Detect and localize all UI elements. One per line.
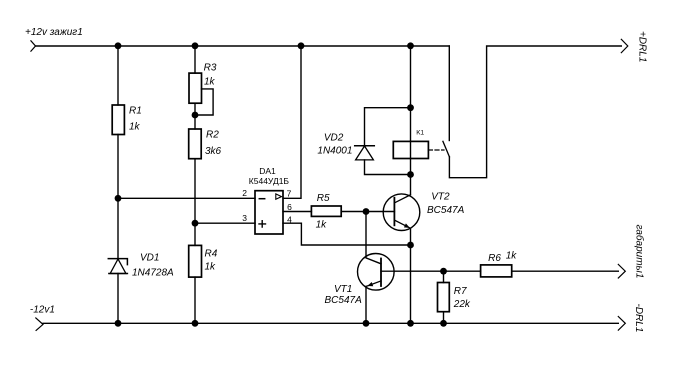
svg-text:7: 7	[287, 189, 292, 199]
node pin4/emitter junction	[407, 242, 414, 249]
resistor R6	[481, 250, 518, 277]
wire VT2 emitter down	[410, 228, 412, 323]
wire relay actuator dashed	[428, 149, 444, 151]
svg-text:1k: 1k	[204, 77, 216, 88]
wire R6 to габариты1 arrow	[512, 270, 619, 272]
node -DRL1 arrow	[618, 317, 625, 331]
node bottom rail junction R4	[192, 320, 199, 327]
wire pin6 output to R5	[283, 211, 311, 213]
svg-text:VT1: VT1	[334, 284, 352, 295]
node top rail junction pin7	[298, 42, 305, 49]
wire bottom rail	[43, 322, 618, 324]
wire relay column vertical	[410, 46, 412, 195]
svg-text:K1: K1	[416, 130, 424, 137]
svg-text:R7: R7	[454, 286, 467, 297]
wire R1 to VD1	[117, 135, 119, 259]
svg-text:1k: 1k	[129, 122, 141, 133]
node VD2 bottom junction	[407, 171, 414, 178]
wire R7 to bottom rail	[443, 312, 445, 324]
node bottom rail junction VT2 emitter	[407, 320, 414, 327]
wire pin7 to top rail	[283, 46, 301, 198]
resistor R3	[189, 63, 217, 104]
node R6/R7 junction	[440, 268, 447, 275]
wire pin2 branch horizontal	[118, 197, 255, 199]
node junction below R3	[192, 112, 199, 119]
wire switch to +DRL1	[449, 46, 621, 178]
node pin2 branch	[115, 195, 122, 202]
svg-text:габариты1: габариты1	[634, 225, 646, 279]
wire VD2 top branch	[365, 108, 411, 146]
svg-text:1k: 1k	[205, 262, 217, 273]
wire R3 wiper tap	[198, 89, 213, 115]
resistor R4	[189, 245, 218, 277]
node VD2 top junction	[407, 104, 414, 111]
wire top +12v rail	[36, 45, 450, 47]
svg-text:-12v1: -12v1	[30, 305, 55, 316]
wire junction to R7	[443, 271, 445, 282]
node bottom rail junction VT1 emitter	[363, 320, 370, 327]
node габариты1 arrow	[618, 264, 625, 278]
switch blade K1.1	[443, 141, 450, 157]
svg-text:К544УД1Б: К544УД1Б	[249, 176, 290, 186]
svg-text:DA1: DA1	[259, 166, 276, 176]
wire pin4 to emitter line	[283, 223, 411, 245]
transistor VT2	[383, 194, 420, 231]
svg-text:22k: 22k	[453, 299, 471, 310]
svg-text:BC547A: BC547A	[325, 295, 363, 306]
wire top rail to R3	[194, 46, 196, 73]
wire pin3 branch horizontal	[195, 222, 255, 224]
node -12v1 input terminal	[36, 318, 43, 330]
wire switch contact from top rail	[448, 46, 450, 141]
svg-text:R6: R6	[488, 253, 501, 264]
node +12v zажиг1 input terminal	[31, 41, 36, 51]
zener diode VD1	[108, 259, 127, 274]
svg-text:1k: 1k	[506, 250, 518, 261]
svg-text:1k: 1k	[316, 220, 328, 231]
diode VD2	[355, 146, 375, 160]
svg-text:+12v зажиг1: +12v зажиг1	[25, 27, 83, 38]
wire R1 column vertical	[117, 46, 119, 105]
wire VD1 to bottom rail	[117, 274, 119, 324]
svg-text:BC547A: BC547A	[427, 205, 465, 216]
svg-text:-DRL1: -DRL1	[633, 304, 644, 333]
svg-text:VD1: VD1	[140, 253, 159, 264]
svg-text:1N4001: 1N4001	[317, 146, 352, 157]
wire R4 to bottom rail	[194, 277, 196, 323]
svg-text:VT2: VT2	[431, 192, 450, 203]
node top rail junction R1	[115, 42, 122, 49]
svg-text:R2: R2	[206, 129, 219, 140]
node pin3 branch	[192, 220, 199, 227]
node top rail junction relay	[407, 42, 414, 49]
resistor R7	[438, 283, 471, 312]
relay K1 coil	[393, 130, 428, 159]
svg-text:R4: R4	[205, 249, 218, 260]
svg-text:1N4728A: 1N4728A	[132, 268, 174, 279]
resistor R2	[189, 129, 222, 159]
node bottom rail junction R1	[115, 320, 122, 327]
resistor R1	[112, 105, 142, 135]
svg-text:3: 3	[242, 213, 247, 223]
svg-text:2: 2	[242, 188, 247, 198]
svg-text:VD2: VD2	[324, 133, 344, 144]
wire VD2 bottom branch	[365, 160, 411, 175]
wire R3 to R2	[194, 103, 196, 129]
node +DRL1 arrow	[621, 39, 628, 52]
svg-text:R5: R5	[317, 193, 330, 204]
svg-text:6: 6	[287, 202, 292, 212]
resistor R5	[311, 193, 341, 231]
svg-text:R3: R3	[204, 63, 217, 74]
svg-text:+DRL1: +DRL1	[636, 31, 647, 62]
node R5/VT1 base junction	[363, 208, 370, 215]
node bottom rail junction R7	[440, 320, 447, 327]
node top rail junction R3	[192, 42, 199, 49]
svg-text:3k6: 3k6	[205, 146, 222, 157]
wire R5 to VT2 base	[341, 211, 394, 213]
transistor VT1	[358, 253, 395, 290]
wire VT1 emitter down	[365, 286, 367, 323]
op-amp DA1 К544УД1Б	[242, 166, 292, 234]
wire R2 to R4	[194, 159, 196, 246]
wire VT1 collector to R6	[394, 270, 481, 272]
svg-text:R1: R1	[129, 106, 142, 117]
wire VT1 base vertical	[366, 212, 381, 264]
